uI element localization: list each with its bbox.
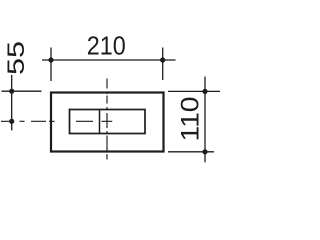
button recess (70, 110, 146, 134)
svg-text:210: 210 (87, 31, 126, 61)
vertical centerline (106, 79, 108, 160)
dot right (160, 57, 165, 62)
dot bottom (9, 119, 14, 124)
svg-text:110: 110 (176, 97, 204, 142)
dimension line 55 (11, 75, 13, 130)
dimension line 110 (204, 77, 206, 163)
extension line left (50, 48, 52, 82)
dot top (9, 89, 14, 94)
dot top (202, 89, 207, 94)
plate outline (51, 93, 164, 152)
dot bottom (202, 149, 207, 154)
dot left (48, 57, 53, 62)
extension line top (2, 90, 42, 92)
extension line top (168, 90, 220, 92)
button divider (99, 110, 101, 134)
extension line bottom (168, 151, 214, 153)
dimension line 210 (42, 59, 176, 61)
horizontal centerline (1, 120, 112, 122)
svg-text:55: 55 (3, 41, 30, 75)
extension line right (162, 48, 164, 81)
